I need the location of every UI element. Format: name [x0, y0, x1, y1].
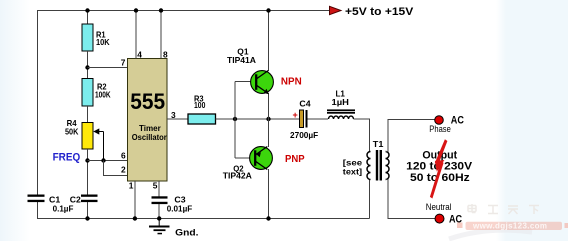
wire pin 4 — [135, 11, 137, 59]
watermark logo swoosh — [449, 230, 532, 239]
junction C2 / rail — [85, 216, 89, 220]
junction pin8 / rail — [159, 8, 163, 12]
IC U1 555 timer — [128, 59, 168, 182]
wire Q1 collector to rail — [268, 11, 270, 72]
wire pin 1 — [134, 181, 136, 219]
svg-text:1µH: 1µH — [332, 97, 349, 107]
junction base node — [233, 117, 237, 121]
svg-text:Neutral: Neutral — [426, 202, 452, 212]
wire Q2 emitter up — [268, 119, 270, 147]
junction top rail / R1 — [85, 8, 89, 12]
wire R4 to FREQ node — [87, 149, 89, 195]
watermark url band — [457, 222, 568, 231]
wire T1 secondary bottom to Neutral — [386, 180, 436, 219]
svg-text:AC: AC — [451, 115, 464, 127]
svg-text:50K: 50K — [65, 126, 78, 136]
svg-text:+5V to +15V: +5V to +15V — [345, 6, 413, 18]
wire C4 to L1 — [308, 118, 329, 120]
transistor Q1 TIP41A NPN — [227, 47, 273, 95]
svg-text:0.1µF: 0.1µF — [53, 203, 74, 213]
svg-text:Phase: Phase — [429, 124, 451, 134]
potentiometer R4 — [65, 118, 93, 149]
wire pin 5 — [158, 181, 160, 196]
svg-text:555: 555 — [130, 89, 165, 114]
wire pin 8 — [160, 11, 162, 59]
wire left rail upper — [37, 11, 39, 196]
svg-text:NPN: NPN — [281, 76, 302, 87]
wire C2 to bottom rail — [87, 202, 89, 219]
wire to pin 7 — [88, 67, 128, 69]
capacitor C3 — [152, 195, 193, 214]
wire R2 to R4 — [87, 106, 89, 123]
svg-text:FREQ: FREQ — [53, 152, 81, 164]
capacitor C4 — [290, 98, 318, 140]
wire T1 secondary top to Phase — [386, 120, 436, 152]
svg-text:www.dgjs123.com: www.dgjs123.com — [472, 222, 547, 231]
svg-text:TIP41A: TIP41A — [227, 55, 256, 65]
power arrow — [330, 6, 342, 14]
wire top +V rail — [37, 10, 330, 12]
wire L1 to T1 — [354, 119, 370, 152]
svg-text:100: 100 — [194, 100, 206, 110]
wire to pin 2 — [104, 161, 128, 176]
svg-text:5: 5 — [153, 181, 158, 191]
wire resistor column top — [87, 11, 89, 25]
resistor R2 — [82, 79, 111, 107]
junction pin4 / rail — [134, 8, 138, 12]
svg-text:10K: 10K — [96, 37, 110, 47]
wire rail up to T1 primary bottom — [369, 179, 371, 219]
wire base column — [234, 82, 236, 159]
wire Q2 base — [235, 157, 256, 159]
svg-text:text]: text] — [343, 167, 363, 177]
transformer T1 — [343, 139, 389, 181]
junction wiper / pin2 branch — [101, 158, 105, 162]
svg-text:Gnd.: Gnd. — [175, 227, 198, 237]
svg-text:100K: 100K — [95, 90, 111, 100]
svg-text:0.01µF: 0.01µF — [167, 203, 192, 213]
svg-text:TIP42A: TIP42A — [223, 171, 252, 181]
junction C3 / rail — [157, 216, 161, 220]
junction pin7 node — [85, 65, 89, 69]
junction emitter node — [266, 117, 270, 121]
transistor Q2 TIP42A PNP — [223, 147, 273, 181]
junction pin1 / rail — [133, 216, 137, 220]
wire Q1 emitter down — [268, 93, 270, 119]
junction FREQ node — [85, 158, 89, 162]
svg-text:1: 1 — [129, 181, 134, 191]
svg-text:PNP: PNP — [285, 154, 305, 165]
svg-text:7: 7 — [121, 58, 126, 68]
svg-text:T1: T1 — [373, 139, 384, 149]
lightning bolt — [430, 139, 448, 198]
wire Q1 base — [235, 81, 256, 83]
watermark text 电工天下 — [468, 204, 539, 214]
junction Q1 collector / rail — [266, 8, 270, 12]
svg-text:3: 3 — [171, 110, 176, 120]
svg-text:8: 8 — [163, 50, 168, 60]
wire left rail lower — [37, 202, 39, 219]
svg-text:+: + — [293, 110, 298, 120]
wire pin 3 — [167, 118, 188, 120]
svg-text:2: 2 — [121, 165, 126, 175]
label output — [406, 150, 472, 184]
capacitor C1 — [28, 195, 61, 205]
junction Q2 collector / rail — [266, 216, 270, 220]
svg-text:2700µF: 2700µF — [290, 130, 318, 140]
terminal AC Neutral — [426, 202, 463, 225]
resistor R3 — [188, 93, 216, 124]
svg-text:Oscillator: Oscillator — [132, 133, 167, 142]
wire R3 to C4 — [216, 118, 300, 120]
wire R1 to R2 — [87, 51, 89, 79]
inductor L1 — [327, 89, 355, 120]
svg-text:AC: AC — [449, 213, 462, 225]
terminal AC Phase — [429, 115, 464, 134]
svg-text:C4: C4 — [299, 98, 311, 108]
wire bottom ground rail — [37, 218, 370, 220]
svg-text:Timer: Timer — [139, 124, 161, 133]
ground — [149, 219, 199, 238]
wire C3 to rail — [158, 204, 160, 219]
capacitor C2 — [53, 195, 98, 214]
wire Q2 collector down — [268, 169, 270, 219]
R4 wiper arrow — [93, 128, 103, 160]
resistor R1 — [82, 24, 110, 51]
svg-text:6: 6 — [121, 151, 126, 161]
svg-text:4: 4 — [137, 50, 142, 60]
wire FREQ node to pin 6 — [88, 160, 128, 162]
